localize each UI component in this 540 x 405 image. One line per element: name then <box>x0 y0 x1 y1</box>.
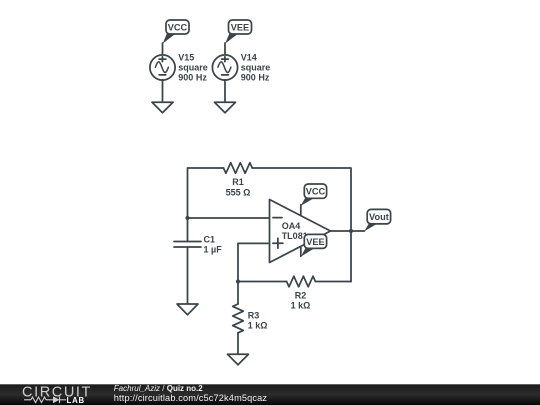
voltage source V15 <box>150 55 175 80</box>
wire (VEE pin of op-amp) <box>300 247 302 257</box>
wire (V15 bottom to ground) <box>162 80 164 103</box>
wire (VCC pin of op-amp) <box>300 205 302 216</box>
svg-text:Vout: Vout <box>369 212 389 222</box>
ground (under V14) <box>215 102 236 113</box>
svg-text:C1: C1 <box>204 234 216 244</box>
label C1 1uF <box>204 234 223 254</box>
resistor R1 <box>224 163 253 174</box>
svg-text:VEE: VEE <box>306 237 324 247</box>
svg-text:1 µF: 1 µF <box>204 244 223 254</box>
svg-text:R3: R3 <box>248 311 260 321</box>
CircuitLab logo wordmark <box>22 385 92 401</box>
label V14 square 900 Hz <box>241 53 271 83</box>
ground (under C1) <box>177 304 198 315</box>
node (junction left at C1/R1) <box>185 216 189 220</box>
label R2 1kohm <box>291 291 311 311</box>
label R3 1kohm <box>248 311 268 331</box>
svg-text:VCC: VCC <box>306 187 326 197</box>
net flag Vout <box>364 209 390 231</box>
net flag VCC (op-amp) <box>301 184 327 206</box>
net flag VEE (top of V14) <box>225 20 251 44</box>
wire (non-inverting input down to node) <box>238 243 270 281</box>
wire (VCC flag to V15 top) <box>162 43 164 55</box>
svg-text:1 kΩ: 1 kΩ <box>248 321 268 331</box>
voltage source V14 <box>212 55 237 80</box>
wire (R1 right to right vertical rail) <box>252 168 351 282</box>
svg-text:R2: R2 <box>295 291 307 301</box>
wire (C1 bottom to ground) <box>187 247 189 304</box>
svg-text:OA4: OA4 <box>282 221 301 231</box>
capacitor C1 <box>174 242 201 248</box>
svg-text:555 Ω: 555 Ω <box>226 188 251 198</box>
wire (op-amp output) <box>331 230 365 232</box>
svg-text:V15: V15 <box>178 53 194 63</box>
resistor R2 <box>287 276 316 287</box>
wire (R3 bottom to ground) <box>237 333 239 354</box>
label OA4 TL081 <box>282 221 308 241</box>
footer title text <box>114 384 268 403</box>
ground (under V15) <box>152 102 173 113</box>
svg-text:900 Hz: 900 Hz <box>178 73 207 83</box>
svg-text:square: square <box>178 63 208 73</box>
wire (V14 bottom to ground) <box>224 80 226 103</box>
wire (inverting input) <box>188 217 270 219</box>
wire (VEE flag to V14 top) <box>224 43 226 55</box>
wire (node down to R3) <box>237 282 239 305</box>
ground (under R3) <box>228 354 249 365</box>
wire (node to R2 left) <box>238 281 287 283</box>
svg-text:R1: R1 <box>232 177 244 187</box>
CircuitLab logo symbol row (resistor + diode + LAB) <box>24 396 85 405</box>
net flag VEE (op-amp) <box>301 234 327 256</box>
node (junction at R2/R3) <box>236 279 240 283</box>
op-amp plus input mark <box>273 238 283 248</box>
svg-text:1 kΩ: 1 kΩ <box>291 301 311 311</box>
label V15 square 900 Hz <box>178 53 208 83</box>
label R1 555 ohm <box>226 177 251 198</box>
svg-text:900 Hz: 900 Hz <box>241 73 270 83</box>
svg-text:http://circuitlab.com/c5c72k4m: http://circuitlab.com/c5c72k4m5qcaz <box>114 393 268 403</box>
svg-text:Fachrul_Aziz / Quiz no.2: Fachrul_Aziz / Quiz no.2 <box>114 384 203 393</box>
footer bar <box>0 384 540 405</box>
svg-text:VEE: VEE <box>231 23 249 33</box>
resistor R3 <box>233 304 244 333</box>
wire (top left vertical, feedback left side) <box>188 168 224 242</box>
svg-text:VCC: VCC <box>168 23 188 33</box>
net flag VCC (top of V15) <box>163 20 189 44</box>
svg-text:V14: V14 <box>241 53 257 63</box>
op-amp OA4 <box>270 200 331 263</box>
svg-text:LAB: LAB <box>67 396 85 405</box>
svg-text:square: square <box>241 63 271 73</box>
node (output junction) <box>349 229 353 233</box>
op-amp minus input mark <box>273 217 282 219</box>
wire (R2 right to right rail corner) <box>315 281 351 283</box>
